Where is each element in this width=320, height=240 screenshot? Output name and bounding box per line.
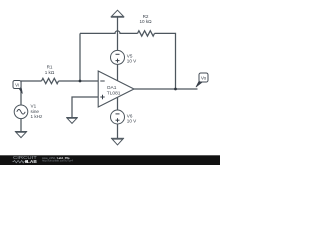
svg-text:OA1: OA1: [107, 85, 117, 91]
svg-text:10 kΩ: 10 kΩ: [139, 19, 152, 24]
banner logo zigzag: [13, 160, 25, 162]
ground G2 under V1: [15, 132, 27, 138]
svg-text:10 V: 10 V: [127, 118, 137, 123]
wire R1 to op-amp inverting input: [59, 80, 99, 82]
wire V5 to op-amp top pin: [117, 64, 119, 80]
resistor R1: [42, 78, 59, 83]
node flag Vo: [196, 73, 208, 87]
supply flag base line: [111, 16, 124, 18]
junction dot at output node: [174, 88, 177, 91]
junction dot at feedback/input node: [79, 80, 82, 83]
wire feedback top with hop: [80, 31, 138, 34]
svg-text:1 kHz: 1 kHz: [31, 114, 43, 119]
wire supply flag stem: [117, 17, 119, 51]
wire input left segment: [21, 80, 42, 82]
svg-text:LAB: LAB: [27, 159, 37, 164]
ground G3 under V6: [111, 138, 124, 145]
supply flag (flipped ground) top: [112, 10, 124, 16]
svg-text:TL081: TL081: [107, 90, 121, 96]
source V1 sine: [14, 104, 43, 120]
wire output: [134, 88, 198, 90]
wire feedback vertical: [79, 33, 81, 81]
op-amp OA1: [98, 71, 134, 107]
svg-text:sine: sine: [31, 109, 40, 114]
svg-text:10 V: 10 V: [127, 58, 137, 63]
banner logo square: [25, 160, 28, 163]
resistor R2 label: [139, 14, 152, 24]
op-amp minus sign: [100, 80, 104, 82]
wire op-amp bottom pin to V6: [117, 97, 119, 110]
ground G1 under non-inverting input: [66, 118, 78, 124]
resistor R2: [138, 31, 155, 36]
svg-text:1 kΩ: 1 kΩ: [45, 70, 55, 75]
wire R2 to right corner: [155, 33, 176, 89]
wire V1 to ground: [20, 119, 22, 132]
resistor R1 label: [45, 65, 55, 76]
wire V1 top vertical: [20, 81, 22, 105]
source V5: [111, 50, 138, 64]
source V6: [111, 110, 138, 124]
svg-text:http://circuitlab.com/c/7pr4: http://circuitlab.com/c/7pr4: [42, 159, 73, 163]
svg-text:Vi: Vi: [15, 82, 19, 87]
op-amp plus sign: [100, 96, 104, 98]
svg-text:V1: V1: [31, 104, 37, 109]
svg-text:R1: R1: [47, 65, 53, 70]
wire non-inverting input: [72, 97, 98, 118]
svg-text:Vo: Vo: [201, 75, 207, 80]
node flag Vi: [13, 81, 22, 94]
wire V6 to ground: [117, 124, 119, 138]
banner bar: [0, 155, 220, 165]
